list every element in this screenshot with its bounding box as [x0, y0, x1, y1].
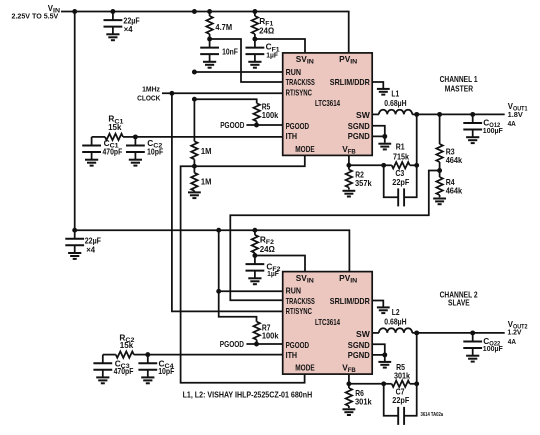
- ground R6 ground: [343, 409, 356, 415]
- resistor RF2 label: [260, 234, 276, 254]
- capacitor 22uF top count: [124, 24, 133, 34]
- wire VIN lower rail to PVIN2: [75, 230, 350, 271]
- ground R2 ground: [343, 191, 356, 197]
- capacitor CC4 label: [158, 358, 174, 376]
- node MODE divider junction: [192, 164, 197, 169]
- node RF2 bottom junction: [252, 253, 257, 258]
- node R3 top tap: [437, 112, 442, 117]
- node rail tap for RUN branch: [192, 9, 197, 14]
- node 1MHz CLOCK label: [137, 84, 161, 102]
- capacitor C7 22pF: [384, 384, 417, 425]
- resistor R4 464k: [436, 171, 442, 198]
- svg-text:PGOOD: PGOOD: [220, 121, 244, 130]
- wire RT/SYNC2 from clock column: [172, 93, 283, 311]
- node VIN input junction: [72, 9, 77, 14]
- resistor R3 label: [446, 147, 463, 166]
- capacitor C7 label: [392, 386, 409, 405]
- svg-text:R1: R1: [396, 142, 405, 152]
- resistor R2 label: [355, 169, 372, 187]
- inductor L1 label: [384, 89, 406, 108]
- wire R5 pull-up feed: [194, 99, 256, 103]
- svg-text:100k: 100k: [262, 331, 279, 341]
- node RUN2 column tap: [216, 228, 221, 233]
- capacitor CF1 1uF: [246, 39, 265, 68]
- svg-text:CLOCK: CLOCK: [137, 93, 161, 102]
- node PGOOD1 external label: [220, 121, 244, 130]
- capacitor CO22 label: [483, 336, 503, 353]
- node inductor note: [183, 390, 313, 400]
- capacitor 10nF label: [222, 47, 238, 57]
- svg-text:LTC3614: LTC3614: [315, 317, 340, 327]
- capacitor CC2 10pF: [126, 137, 145, 166]
- svg-text:RUN: RUN: [286, 286, 301, 296]
- node ITH1 comp junction: [133, 134, 138, 139]
- node VIN label: [12, 4, 61, 21]
- svg-text:4.7M: 4.7M: [215, 22, 232, 32]
- resistor 1M upper label: [201, 146, 212, 156]
- wire PGOOD1: [246, 124, 282, 126]
- svg-text:100k: 100k: [262, 110, 279, 120]
- ground SRLIM/DDR1: [372, 82, 389, 95]
- svg-text:SRLIM/DDR: SRLIM/DDR: [330, 77, 370, 87]
- wire TRACK/SS1 from 4.7M junction: [210, 39, 283, 82]
- resistor R6 label: [355, 388, 372, 406]
- svg-text:RT/SYNC: RT/SYNC: [286, 87, 312, 97]
- wire ITH1: [135, 136, 282, 138]
- svg-text:PGND: PGND: [348, 350, 370, 360]
- wire RF1 junction to SVIN1: [255, 39, 305, 53]
- resistor R5 100k pull-up: [254, 103, 260, 125]
- svg-text:15k: 15k: [120, 340, 134, 350]
- resistor 4.7M label: [215, 22, 232, 32]
- capacitor 22uF x4 (input lower): [65, 230, 84, 259]
- svg-text:×4: ×4: [86, 244, 95, 254]
- resistor RF1 24ohm: [252, 12, 258, 40]
- svg-text:1M: 1M: [201, 146, 212, 156]
- capacitor CC1 label: [103, 138, 123, 156]
- ground SGND2 PGND2: [372, 344, 391, 367]
- inductor L1 0.68uH: [379, 110, 412, 115]
- wire RF2 junction to SVIN2: [255, 256, 305, 272]
- wire RUN2 column and R7 feed: [219, 230, 257, 322]
- resistor R5 pullup label: [262, 101, 279, 119]
- capacitor CF1 label: [266, 42, 281, 60]
- resistor RF2 24ohm: [252, 230, 258, 255]
- resistor R1 715k: [384, 162, 417, 168]
- svg-text:1MHz: 1MHz: [142, 84, 160, 93]
- node R3 R4 junction: [437, 168, 442, 173]
- svg-text:RUN: RUN: [286, 67, 301, 77]
- wire VFB2 to R5: [349, 383, 384, 385]
- svg-text:100µF: 100µF: [483, 126, 503, 135]
- capacitor 22uF lower count: [86, 244, 95, 254]
- resistor R2 357k: [346, 165, 352, 189]
- capacitor CO12 label: [483, 118, 503, 135]
- ground SGND1 PGND1: [372, 126, 391, 150]
- capacitor 22uF top label: [123, 16, 139, 26]
- svg-text:CHANNEL 1: CHANNEL 1: [440, 75, 479, 84]
- node CHANNEL 1 MASTER label: [440, 75, 479, 94]
- svg-text:470pF: 470pF: [114, 366, 134, 376]
- node CO12 tap: [470, 112, 475, 117]
- resistor RC2 label: [119, 332, 135, 350]
- node CO22 tap: [470, 330, 475, 335]
- svg-text:15k: 15k: [108, 122, 122, 132]
- node RUN2 tap: [216, 289, 221, 294]
- svg-text:4A: 4A: [508, 119, 516, 128]
- capacitor C3 22pF: [384, 165, 417, 206]
- svg-text:24Ω: 24Ω: [260, 244, 276, 254]
- resistor R6 301k: [346, 384, 352, 408]
- node RUN1 tap: [192, 70, 197, 75]
- node 22uF top tap: [110, 9, 115, 14]
- svg-text:1.8V: 1.8V: [508, 110, 523, 119]
- capacitor CC1 470pF: [82, 137, 101, 166]
- svg-text:1µF: 1µF: [267, 269, 279, 278]
- node lower rail corner: [72, 228, 77, 233]
- svg-text:SRLIM/DDR: SRLIM/DDR: [330, 296, 370, 306]
- resistor R5 feedback label: [394, 362, 410, 381]
- svg-text:MASTER: MASTER: [445, 85, 474, 94]
- svg-text:LTC3614: LTC3614: [315, 98, 340, 108]
- ground SRLIM/DDR2: [372, 301, 389, 314]
- wire VFB1 to R1: [349, 164, 384, 166]
- node R5 feed tap: [192, 97, 197, 102]
- wire VFB1 drop: [348, 155, 350, 165]
- capacitor CC3 470pF: [93, 355, 112, 384]
- op-amp U2 LTC3614 pin labels: [286, 273, 370, 374]
- wire output channel 2: [412, 332, 505, 334]
- svg-text:L1, L2: VISHAY IHLP-2525CZ-01: L1, L2: VISHAY IHLP-2525CZ-01 680nH: [183, 390, 313, 400]
- svg-text:TRACK/SS: TRACK/SS: [286, 77, 316, 87]
- node RF1 bottom junction: [252, 37, 257, 42]
- wire R5h right to output: [416, 333, 418, 384]
- resistor 4.7M soft-start: [206, 12, 212, 40]
- svg-text:PGOOD: PGOOD: [220, 340, 244, 349]
- wire PGOOD2: [246, 343, 282, 345]
- node figure number: [421, 412, 444, 418]
- svg-text:1.2V: 1.2V: [507, 327, 521, 336]
- node R5h top tap: [414, 330, 419, 335]
- svg-text:SW: SW: [356, 110, 370, 120]
- wire DDR link R3R4 junction to TRACK/SS2: [230, 171, 439, 301]
- resistor R5 301k (feedback): [384, 381, 417, 387]
- svg-text:0.68µH: 0.68µH: [384, 316, 406, 326]
- svg-text:301k: 301k: [355, 396, 372, 406]
- wire R1 right to output: [416, 114, 418, 165]
- resistor RF1 label: [259, 16, 275, 36]
- capacitor 22uF lower label: [85, 235, 101, 245]
- wire VIN top rail to PVIN1: [61, 12, 349, 53]
- svg-text:ITH: ITH: [286, 350, 298, 360]
- wire 1M divider feed: [193, 99, 195, 141]
- node CHANNEL 2 SLAVE label: [440, 291, 479, 308]
- svg-text:470pF: 470pF: [103, 146, 123, 156]
- svg-text:PGOOD: PGOOD: [286, 121, 310, 131]
- resistor RC1 label: [108, 114, 124, 132]
- svg-text:SGND: SGND: [348, 121, 370, 131]
- node R1 left junction: [381, 163, 386, 168]
- wire output channel 1: [412, 113, 505, 115]
- svg-text:SGND: SGND: [348, 340, 370, 350]
- svg-text:24Ω: 24Ω: [259, 26, 275, 36]
- capacitor 10nF soft-start: [200, 39, 219, 68]
- svg-text:100µF: 100µF: [483, 344, 503, 353]
- op-amp U2 LTC3614 channel 2: [283, 272, 373, 375]
- wire RUN2: [219, 290, 283, 292]
- node clock junction: [169, 91, 174, 96]
- svg-text:3614 TA02a: 3614 TA02a: [421, 412, 444, 418]
- wire SW2 to inductor: [372, 332, 379, 334]
- svg-text:4A: 4A: [508, 337, 516, 346]
- ground 1M lower ground: [188, 192, 201, 198]
- capacitor CC2 label: [147, 138, 163, 156]
- wire MODE1 to MODE2 link: [181, 155, 305, 382]
- wire VFB2 drop: [348, 374, 350, 384]
- resistor R7 100k pull-up: [254, 322, 260, 344]
- node R5h left junction: [381, 381, 386, 386]
- resistor 1M upper: [191, 141, 197, 166]
- node RF1 top: [252, 9, 257, 14]
- resistor RC2 15k: [103, 351, 148, 357]
- wire VIN left rail down: [74, 12, 76, 231]
- svg-text:×4: ×4: [124, 24, 133, 34]
- resistor 1M lower: [191, 166, 197, 192]
- node VOUT1 label: [508, 102, 528, 128]
- node PGOOD2 junction: [254, 342, 259, 347]
- svg-text:464k: 464k: [446, 155, 463, 165]
- svg-text:10nF: 10nF: [222, 47, 238, 57]
- node VOUT2 label: [507, 320, 528, 346]
- capacitor 22uF x4 (input top): [104, 12, 123, 41]
- node 4.7M top: [207, 9, 212, 14]
- svg-text:22pF: 22pF: [392, 395, 409, 405]
- wire ITH2: [148, 354, 283, 356]
- svg-text:22pF: 22pF: [392, 177, 409, 187]
- inductor L2 label: [384, 307, 406, 326]
- node R1 top tap: [414, 112, 419, 117]
- capacitor CO12 100uF: [463, 114, 482, 143]
- svg-text:10pF: 10pF: [147, 146, 163, 156]
- svg-text:SLAVE: SLAVE: [448, 299, 470, 308]
- svg-text:PGOOD: PGOOD: [286, 340, 310, 350]
- svg-text:RT/SYNC: RT/SYNC: [286, 306, 312, 316]
- svg-text:1µF: 1µF: [266, 50, 278, 59]
- svg-text:ITH: ITH: [286, 131, 298, 141]
- node ITH2 comp junction: [145, 352, 150, 357]
- svg-text:301k: 301k: [394, 371, 410, 381]
- wire RUN1: [194, 71, 282, 73]
- node PGOOD2 external label: [220, 340, 244, 349]
- node R1 right junction: [414, 163, 419, 168]
- svg-text:MODE: MODE: [295, 144, 315, 154]
- node R5h right junction: [414, 381, 419, 386]
- svg-text:SW: SW: [356, 329, 370, 339]
- svg-text:PGND: PGND: [348, 131, 370, 141]
- svg-text:715k: 715k: [393, 152, 409, 162]
- capacitor CF2 label: [266, 262, 281, 279]
- svg-text:464k: 464k: [446, 186, 463, 196]
- node PGOOD1 junction: [254, 123, 259, 128]
- capacitor CF2 1uF: [246, 256, 265, 285]
- node VFB2 junction: [346, 381, 351, 386]
- svg-text:2.25V TO 5.5V: 2.25V TO 5.5V: [12, 14, 59, 21]
- ground R4 ground: [433, 199, 446, 205]
- capacitor CO22 100uF: [463, 333, 482, 362]
- svg-text:357k: 357k: [355, 178, 372, 188]
- node VFB1 junction: [346, 163, 351, 168]
- inductor L2 0.68uH: [379, 328, 412, 333]
- resistor RC1 15k: [92, 134, 136, 140]
- svg-text:1M: 1M: [201, 177, 212, 187]
- svg-text:10pF: 10pF: [158, 366, 174, 376]
- resistor R7 pullup label: [262, 323, 279, 341]
- wire RT/SYNC1 from clock: [162, 92, 283, 94]
- resistor R1 label: [393, 142, 409, 162]
- node RF2 top: [252, 228, 257, 233]
- resistor 1M lower label: [201, 177, 212, 187]
- svg-text:0.68µH: 0.68µH: [384, 98, 406, 108]
- wire SW1 to inductor: [372, 113, 379, 115]
- capacitor CC4 10pF: [138, 355, 157, 384]
- resistor R3 464k: [436, 114, 442, 170]
- svg-text:MODE: MODE: [295, 363, 315, 373]
- svg-text:TRACK/SS: TRACK/SS: [286, 296, 316, 306]
- capacitor C3 label: [392, 168, 409, 187]
- resistor R4 label: [446, 177, 463, 196]
- node 4.7M bottom junction: [207, 37, 212, 42]
- op-amp U1 LTC3614 channel 1: [283, 53, 373, 155]
- capacitor CC3 label: [114, 358, 134, 376]
- op-amp U1 LTC3614 pin labels: [286, 54, 370, 155]
